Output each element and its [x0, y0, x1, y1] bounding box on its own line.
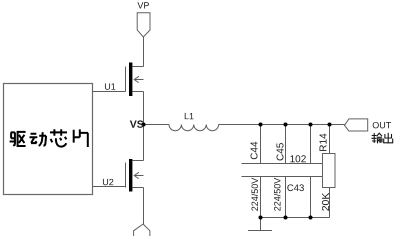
svg-text:224/50V: 224/50V: [273, 178, 283, 212]
svg-text:U2: U2: [102, 177, 114, 187]
svg-text:VP: VP: [137, 0, 149, 10]
svg-text:C45: C45: [276, 142, 287, 161]
svg-text:OUT: OUT: [372, 120, 392, 130]
svg-text:20K: 20K: [320, 193, 332, 212]
svg-text:102: 102: [290, 154, 307, 165]
svg-text:L1: L1: [184, 111, 194, 121]
svg-text:C43: C43: [287, 183, 304, 194]
svg-text:VS: VS: [130, 119, 144, 131]
svg-text:C44: C44: [250, 141, 261, 160]
svg-text:224/50V: 224/50V: [250, 178, 260, 212]
svg-text:U1: U1: [104, 82, 116, 92]
svg-text:R14: R14: [319, 133, 330, 152]
